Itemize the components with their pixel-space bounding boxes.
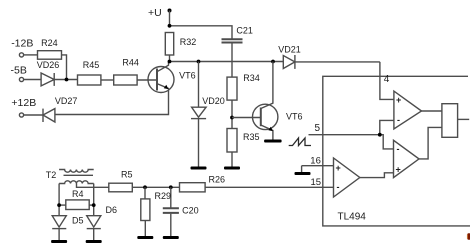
svg-text:R24: R24 <box>41 38 58 48</box>
svg-text:R26: R26 <box>209 175 226 185</box>
svg-text:+12B: +12B <box>11 97 36 109</box>
svg-text:VD21: VD21 <box>278 45 301 55</box>
svg-text:R5: R5 <box>121 170 133 180</box>
svg-text:4: 4 <box>384 74 390 85</box>
svg-text:R4: R4 <box>72 189 84 199</box>
svg-text:+: + <box>396 165 401 175</box>
svg-text:C21: C21 <box>236 26 253 36</box>
svg-text:VT6: VT6 <box>179 70 196 80</box>
svg-text:+: + <box>336 163 341 173</box>
svg-text:R34: R34 <box>243 73 260 83</box>
svg-text:T2: T2 <box>46 170 57 180</box>
svg-text:VD20: VD20 <box>202 96 225 106</box>
svg-text:D6: D6 <box>106 205 118 215</box>
svg-text:C20: C20 <box>182 206 199 216</box>
svg-text:TL494: TL494 <box>338 212 367 223</box>
svg-text:R32: R32 <box>180 37 197 47</box>
svg-text:-12B: -12B <box>11 38 33 50</box>
svg-text:R44: R44 <box>122 57 139 67</box>
svg-text:R45: R45 <box>83 60 100 70</box>
svg-text:D5: D5 <box>72 216 84 226</box>
svg-text:16: 16 <box>310 156 321 167</box>
svg-text:15: 15 <box>311 177 322 188</box>
svg-text:VD26: VD26 <box>37 60 60 70</box>
svg-text:+: + <box>396 95 401 105</box>
svg-text:-: - <box>337 182 340 192</box>
svg-text:R29: R29 <box>155 191 172 201</box>
svg-text:R35: R35 <box>243 132 260 142</box>
svg-text:VD27: VD27 <box>55 96 78 106</box>
svg-text:5: 5 <box>315 123 321 134</box>
svg-text:-: - <box>397 144 400 154</box>
svg-text:-5B: -5B <box>11 65 27 77</box>
svg-text:+U: +U <box>148 7 162 19</box>
svg-text:VT6: VT6 <box>286 111 303 121</box>
svg-text:-: - <box>397 115 400 125</box>
